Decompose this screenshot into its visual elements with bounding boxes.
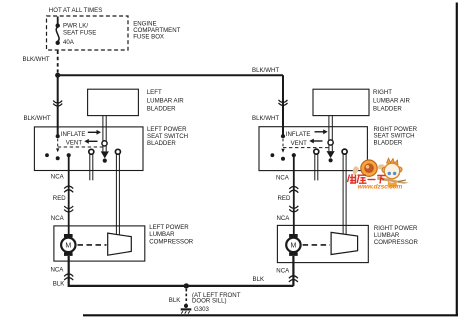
hose terminal vent (left) bbox=[89, 149, 94, 180]
valve port ring (left) bbox=[102, 141, 107, 146]
svg-text:LEFT POWER: LEFT POWER bbox=[149, 224, 189, 231]
svg-text:BLK: BLK bbox=[53, 280, 65, 287]
svg-text:RIGHT POWER: RIGHT POWER bbox=[374, 225, 418, 232]
svg-text:RIGHT: RIGHT bbox=[373, 89, 392, 96]
svg-text:NCA: NCA bbox=[276, 267, 290, 274]
svg-text:M: M bbox=[65, 243, 71, 250]
connector (right mid, down) bbox=[289, 206, 298, 212]
left lumbar air bladder box bbox=[88, 89, 139, 115]
right power lumbar compressor box bbox=[277, 225, 368, 262]
svg-text:NCA: NCA bbox=[51, 266, 65, 273]
page border bottom bbox=[83, 314, 458, 316]
arrow vent left (left box) bbox=[84, 139, 97, 144]
hose: left bladder hose bbox=[103, 116, 106, 152]
node: left switch feed dot bbox=[56, 134, 60, 138]
svg-text:SEAT FUSE: SEAT FUSE bbox=[63, 30, 96, 37]
svg-text:PWR LK/: PWR LK/ bbox=[63, 23, 88, 30]
node: left switch contact B bbox=[67, 153, 71, 157]
label RIGHT LUMBAR AIR BLADDER bbox=[373, 89, 411, 113]
svg-text:BLADDER: BLADDER bbox=[147, 140, 176, 147]
connector (right feed, down) bbox=[279, 100, 288, 106]
svg-text:LUMBAR: LUMBAR bbox=[149, 231, 175, 238]
label RIGHT POWER SEAT SWITCH BLADDER bbox=[374, 126, 418, 147]
watermark dzsc logo bbox=[353, 158, 409, 188]
wire: right switch to compressor bbox=[293, 155, 295, 234]
svg-text:SEAT SWITCH: SEAT SWITCH bbox=[147, 133, 188, 140]
connector (left mid, up) bbox=[64, 186, 73, 192]
arrow inflate right (right box) bbox=[315, 129, 328, 134]
svg-text:BLADDER: BLADDER bbox=[374, 140, 403, 147]
svg-text:40A: 40A bbox=[63, 39, 75, 46]
motor M (right) bbox=[286, 234, 300, 256]
hose terminal to compressor (left) bbox=[115, 149, 120, 235]
svg-text:LUMBAR AIR: LUMBAR AIR bbox=[147, 98, 185, 105]
connector (left feed, down) bbox=[53, 101, 62, 107]
svg-text:LEFT POWER: LEFT POWER bbox=[147, 126, 187, 133]
svg-text:www.dzsc.com: www.dzsc.com bbox=[358, 184, 403, 191]
compressor cone (left) bbox=[108, 233, 132, 255]
valve triangle (right) bbox=[327, 151, 335, 158]
svg-text:FUSE BOX: FUSE BOX bbox=[133, 34, 164, 41]
left power lumbar compressor box bbox=[54, 226, 145, 261]
wire: dashed drop from fuse box to junction bbox=[57, 51, 59, 73]
page border right bbox=[456, 3, 458, 316]
connector (left mid, down) bbox=[64, 206, 73, 212]
switch wiper contact (left) bbox=[56, 148, 60, 160]
svg-text:LUMBAR AIR: LUMBAR AIR bbox=[373, 98, 411, 105]
wire: left drop to switch bbox=[57, 75, 59, 136]
svg-text:NCA: NCA bbox=[276, 175, 290, 182]
svg-text:M: M bbox=[290, 243, 296, 250]
svg-text:COMPRESSOR: COMPRESSOR bbox=[374, 239, 419, 246]
node: junction at top bus bbox=[55, 73, 60, 78]
wire: right compressor to ground bus bbox=[292, 256, 294, 286]
svg-text:BLK: BLK bbox=[169, 297, 181, 304]
valve ball (left) bbox=[103, 159, 107, 163]
arrow inflate right (left box) bbox=[88, 130, 101, 135]
label ENGINE COMPARTMENT FUSE BOX bbox=[133, 20, 180, 40]
node: ground junction bbox=[184, 283, 189, 288]
svg-text:NCA: NCA bbox=[51, 215, 65, 222]
svg-text:DOOR SILL): DOOR SILL) bbox=[192, 298, 227, 305]
arrow vent left (right box) bbox=[309, 139, 322, 144]
svg-text:COMPRESSOR: COMPRESSOR bbox=[149, 239, 194, 246]
svg-text:INFLATE: INFLATE bbox=[286, 131, 311, 138]
watermark text 维库一下 (drawn strokes) bbox=[348, 174, 386, 184]
svg-text:INFLATE: INFLATE bbox=[61, 131, 86, 138]
hose terminal to compressor (right) bbox=[342, 149, 347, 235]
wire: top bus BLK/WHT bbox=[58, 74, 283, 76]
ground G303 bbox=[181, 304, 192, 314]
right lumbar air bladder box bbox=[313, 89, 369, 115]
wire: left compressor to ground bus bbox=[69, 256, 294, 286]
label LEFT POWER LUMBAR COMPRESSOR bbox=[149, 224, 194, 246]
label RIGHT POWER LUMBAR COMPRESSOR bbox=[374, 225, 419, 246]
svg-text:BLK/WHT: BLK/WHT bbox=[24, 115, 51, 122]
wire: right drop to switch bbox=[282, 75, 284, 136]
svg-text:HOT AT ALL TIMES: HOT AT ALL TIMES bbox=[49, 7, 103, 14]
node: right switch contact B bbox=[292, 153, 296, 157]
wire: feed inside fuse box bbox=[57, 17, 59, 25]
node: right switch feed dot bbox=[281, 134, 285, 138]
connector (right mid, up) bbox=[289, 187, 298, 193]
svg-text:NCA: NCA bbox=[51, 173, 65, 180]
connector (right bottom, up) bbox=[289, 276, 298, 282]
node: left switch contact A bbox=[45, 153, 49, 157]
connector (left bottom, up) bbox=[64, 274, 73, 280]
svg-text:BLADDER: BLADDER bbox=[147, 105, 176, 112]
svg-text:NCA: NCA bbox=[277, 215, 291, 222]
label LEFT LUMBAR AIR BLADDER bbox=[147, 89, 185, 113]
valve port ring (right) bbox=[328, 140, 333, 145]
motor M (left) bbox=[61, 234, 75, 256]
motor shaft dashed (left) bbox=[78, 244, 107, 246]
node: right switch contact A bbox=[271, 153, 275, 157]
svg-text:G303: G303 bbox=[194, 306, 210, 313]
label (AT LEFT FRONT DOOR SILL) bbox=[192, 292, 241, 305]
compressor cone (right) bbox=[331, 232, 358, 254]
svg-text:BLK/WHT: BLK/WHT bbox=[252, 67, 279, 74]
svg-text:VENT: VENT bbox=[66, 140, 83, 147]
label LEFT POWER SEAT SWITCH BLADDER bbox=[147, 126, 188, 147]
svg-text:RED: RED bbox=[53, 195, 66, 202]
svg-text:LUMBAR: LUMBAR bbox=[374, 232, 400, 239]
valve ball (right) bbox=[329, 158, 333, 162]
switch linkage dashed (right) bbox=[283, 139, 329, 148]
left power seat switch bladder box bbox=[34, 127, 143, 171]
label PWR LK/ SEAT FUSE 40A bbox=[63, 23, 96, 46]
wire: dashed drop to ground bbox=[185, 289, 187, 304]
wire: left switch to compressor bbox=[68, 155, 70, 234]
switch linkage dashed (left) bbox=[58, 139, 103, 147]
svg-text:VENT: VENT bbox=[291, 140, 308, 147]
switch wiper contact (right) bbox=[281, 149, 285, 161]
motor shaft dashed (right) bbox=[303, 244, 330, 246]
right power seat switch bladder box bbox=[259, 127, 367, 171]
fuse PWR LK/ SEAT FUSE 40A bbox=[56, 23, 60, 45]
svg-text:BLK/WHT: BLK/WHT bbox=[252, 115, 279, 122]
svg-text:LEFT: LEFT bbox=[147, 89, 162, 96]
hose terminal vent (right) bbox=[314, 149, 319, 180]
hose: right bladder hose bbox=[329, 116, 332, 151]
svg-text:BLK: BLK bbox=[253, 276, 265, 283]
engine compartment fuse box (dashed enclosure) bbox=[47, 16, 129, 50]
svg-text:BLK/WHT: BLK/WHT bbox=[23, 56, 50, 63]
svg-text:RED: RED bbox=[278, 195, 291, 202]
valve triangle (left) bbox=[101, 151, 109, 158]
svg-text:BLADDER: BLADDER bbox=[373, 105, 402, 112]
